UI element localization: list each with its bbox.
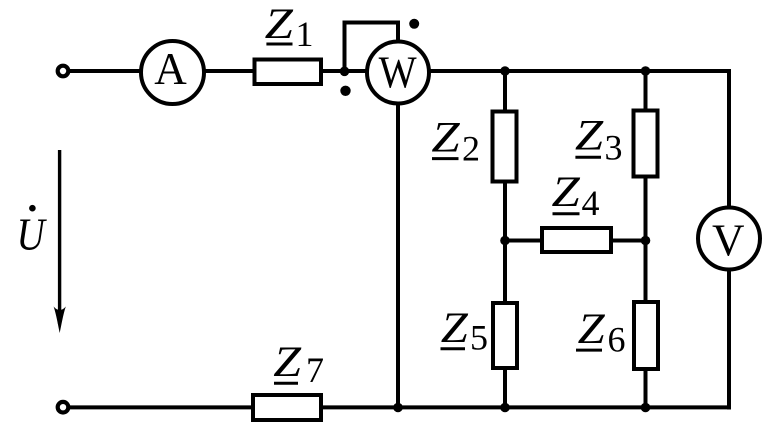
svg-text:Z: Z	[273, 339, 302, 386]
svg-text:W: W	[379, 47, 418, 98]
label Z4	[552, 169, 600, 223]
node (Z4 left)	[500, 236, 510, 246]
node (Z3 branch, top)	[641, 66, 651, 76]
wire Z2 to mid node	[503, 181, 507, 242]
wire W to right edge	[429, 69, 731, 73]
label Z6	[578, 305, 626, 360]
terminal T1 (top input)	[58, 66, 69, 77]
label Z5	[441, 304, 488, 358]
wire V down to bottom wire	[727, 269, 731, 410]
wire mid node to Z6	[644, 240, 648, 302]
terminal T2 (bottom input)	[58, 402, 69, 413]
ammeter A	[141, 41, 204, 104]
wire bottom-left to Z7	[69, 405, 253, 409]
wattmeter W	[367, 42, 429, 104]
wire Z4 right	[611, 239, 646, 243]
wire W down to bottom wire	[396, 104, 400, 408]
impedance Z5	[493, 303, 517, 368]
impedance Z7	[253, 395, 321, 420]
svg-text:2: 2	[462, 129, 480, 169]
impedance Z6	[634, 302, 658, 369]
label U (source voltage)	[17, 205, 48, 260]
wire Z1 to W	[321, 69, 368, 73]
svg-text:3: 3	[605, 127, 623, 167]
svg-text:A: A	[154, 44, 187, 94]
wire A to Z1	[204, 69, 254, 73]
svg-text:U: U	[17, 209, 48, 260]
label Z7	[273, 339, 324, 390]
node junction (wattmeter tap)	[340, 67, 350, 77]
svg-text:Z: Z	[552, 169, 581, 217]
impedance Z3	[634, 111, 658, 177]
impedance Z4	[542, 228, 611, 252]
wire Z3 to mid node	[644, 176, 648, 242]
wire mid node to Z5	[503, 240, 507, 303]
wire Z5 to bottom wire	[503, 368, 507, 408]
label Z2	[431, 114, 480, 168]
wire voltage-coil loop	[345, 23, 399, 72]
voltmeter V	[698, 208, 760, 270]
label Z3	[575, 112, 623, 167]
svg-text:Z: Z	[441, 304, 469, 352]
node (Z6 bottom)	[641, 403, 651, 413]
svg-text:Z: Z	[578, 305, 606, 353]
svg-text:V: V	[712, 216, 745, 266]
wire top node to Z3	[644, 71, 648, 110]
node (Z2 branch, top)	[500, 66, 510, 76]
wire Z4 left	[505, 239, 542, 243]
wire top-left	[69, 69, 141, 73]
node (Z4 right)	[641, 236, 651, 246]
wire Z7 to right edge	[321, 405, 731, 409]
svg-text:Z: Z	[265, 1, 294, 49]
wire top node to Z2	[503, 71, 507, 111]
impedance Z2	[493, 112, 517, 182]
node (W branch, bottom)	[393, 403, 403, 413]
source arrow U	[58, 150, 61, 324]
wire right edge down to V	[727, 69, 731, 208]
svg-text:Z: Z	[431, 114, 460, 162]
svg-text:4: 4	[582, 183, 600, 223]
polarity dot (voltage coil)	[409, 19, 419, 29]
svg-text:Z: Z	[575, 112, 604, 160]
svg-text:7: 7	[306, 350, 324, 390]
impedance Z1	[255, 60, 322, 85]
node (Z5 bottom)	[500, 403, 510, 413]
svg-text:5: 5	[470, 318, 488, 358]
label Z1	[265, 1, 314, 54]
svg-text:6: 6	[608, 319, 626, 359]
wire Z6 to bottom wire	[644, 369, 648, 408]
polarity dot (current coil)	[340, 86, 350, 96]
svg-text:1: 1	[296, 14, 314, 54]
